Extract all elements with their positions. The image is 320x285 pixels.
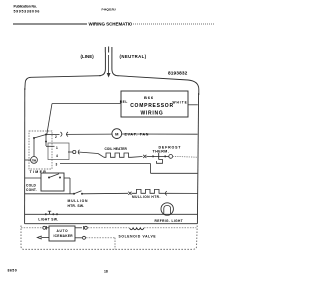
svg-text:B66: B66 [144, 95, 154, 100]
svg-text:5995338006: 5995338006 [14, 10, 41, 14]
svg-text:(NEUTRAL): (NEUTRAL) [120, 54, 147, 59]
svg-text:EVAP. FAN: EVAP. FAN [125, 133, 150, 137]
svg-text:WIRING SCHEMATIC: WIRING SCHEMATIC [89, 21, 133, 26]
svg-text:TIM: TIM [32, 158, 36, 162]
svg-text:CONT.: CONT. [26, 188, 37, 192]
svg-text:THERM.: THERM. [153, 149, 170, 153]
svg-text:1: 1 [56, 146, 58, 150]
svg-text:MULLION HTR.: MULLION HTR. [132, 195, 161, 199]
svg-text:2: 2 [55, 135, 57, 139]
svg-text:COIL HEATER: COIL HEATER [105, 147, 128, 151]
svg-text:REFRIG. LIGHT: REFRIG. LIGHT [155, 219, 184, 223]
svg-text:M: M [115, 131, 119, 136]
svg-text:ICEMAKER: ICEMAKER [54, 234, 74, 238]
svg-text:COMPRESSOR: COMPRESSOR [130, 103, 174, 109]
svg-text:8650: 8650 [8, 269, 18, 273]
svg-text:18: 18 [104, 270, 108, 274]
svg-text:REL: REL [120, 100, 128, 104]
svg-text:Publication No.: Publication No. [14, 5, 37, 9]
svg-text:WHITE: WHITE [173, 101, 188, 105]
svg-text:4: 4 [56, 154, 58, 158]
svg-text:WIRING: WIRING [140, 111, 163, 117]
svg-text:MULLION: MULLION [68, 199, 89, 203]
svg-text:LIGHT SW.: LIGHT SW. [38, 217, 58, 221]
svg-text:3: 3 [56, 163, 58, 167]
svg-text:(LINE): (LINE) [81, 54, 95, 59]
svg-text:HTR. SW.: HTR. SW. [68, 204, 85, 208]
svg-text:AUTO: AUTO [57, 229, 69, 233]
svg-text:F44Q21RU: F44Q21RU [102, 8, 116, 12]
svg-text:SOLENOID VALVE: SOLENOID VALVE [119, 235, 157, 239]
svg-text:8193832: 8193832 [168, 71, 188, 77]
